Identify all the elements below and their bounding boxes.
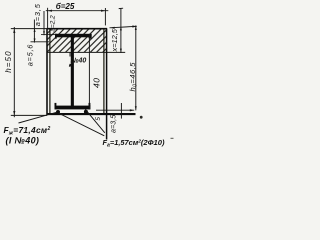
neutral axis line (47, 51, 125, 53)
leader from Fa label to left rebar (59, 113, 105, 136)
svg-text:а=2,2: а=2,2 (49, 15, 56, 32)
dimension a=5,6: dimension line (33, 20, 35, 43)
svg-text:5: 5 (95, 117, 102, 121)
small end dash (171, 138, 174, 139)
svg-text:40: 40 (91, 77, 101, 88)
dimension h0=46,5: small cross tick (140, 116, 143, 119)
leader from Fa label to right rebar (85, 109, 105, 133)
svg-text:h0=46,5: h0=46,5 (128, 62, 139, 92)
dimension b=25: extension lines (47, 8, 49, 29)
I-beam bottom flange (55, 103, 91, 110)
dimension a=5,6: extension line (31, 41, 50, 43)
concrete section outline: bottom edge (extended right) (47, 113, 136, 115)
dimension b=25: arrowheads (48, 10, 106, 12)
paper background (0, 0, 175, 156)
leader from Fzh label to I-beam (19, 112, 57, 123)
dimension h=50: arrowheads (13, 29, 15, 116)
concrete section outline: right outer edge (extended down) (106, 28, 108, 139)
dimension x=12,5: top extension line (110, 26, 137, 28)
dimension a=3,5 bottom: dimension line (120, 103, 122, 119)
svg-text:h=50: h=50 (4, 50, 13, 72)
svg-text:а=5,6: а=5,6 (25, 44, 34, 67)
svg-text:б=25: б=25 (56, 2, 75, 11)
I-beam top flange (55, 34, 92, 39)
dimension h0=46,5: arrowheads (135, 26, 137, 110)
web label leader arrow (69, 52, 73, 66)
svg-text:Fа=1,57см2(2Ф10): Fа=1,57см2(2Ф10) (103, 138, 165, 148)
rebar level extension line (96, 109, 134, 111)
svg-text:а=3,5: а=3,5 (108, 114, 117, 133)
dimension a=3,5 top: dimension line (43, 11, 45, 35)
dimension a=3,5 top: arrowhead (43, 31, 45, 34)
svg-text:(I №40): (I №40) (6, 136, 40, 146)
dimension a=5,6: arrowheads (34, 29, 36, 42)
dimension 40 (I-beam height): dimension line (88, 34, 90, 109)
dimension b=25: dimension line (46, 10, 109, 12)
dimension x=12,5: arrowheads (120, 27, 122, 53)
hatched compression zone (47, 29, 106, 52)
concrete section outline: left inner line (49, 29, 51, 114)
dimension h0=46,5: dimension line (135, 25, 137, 110)
I-beam web (71, 37, 74, 106)
concrete section outline: left outer edge (46, 28, 48, 115)
concrete section outline: right inner line (103, 29, 105, 114)
svg-text:х=12,5: х=12,5 (110, 28, 119, 52)
rebar dot right (2Ф10) (84, 110, 88, 114)
rebar dot left (2Ф10) (56, 110, 60, 114)
dimension 40: arrowheads (88, 35, 90, 109)
dimension a=3,5 top: extension line to flange (41, 34, 56, 36)
dimension h=50: bottom extension line (11, 114, 47, 116)
dimension x=12,5: dimension line (120, 8, 122, 53)
dimension h=50: dimension line (13, 27, 15, 117)
concrete section outline: top edge (47, 28, 107, 30)
svg-text:а=3,5: а=3,5 (33, 3, 42, 26)
dimension h=50: top extension line (11, 28, 47, 30)
